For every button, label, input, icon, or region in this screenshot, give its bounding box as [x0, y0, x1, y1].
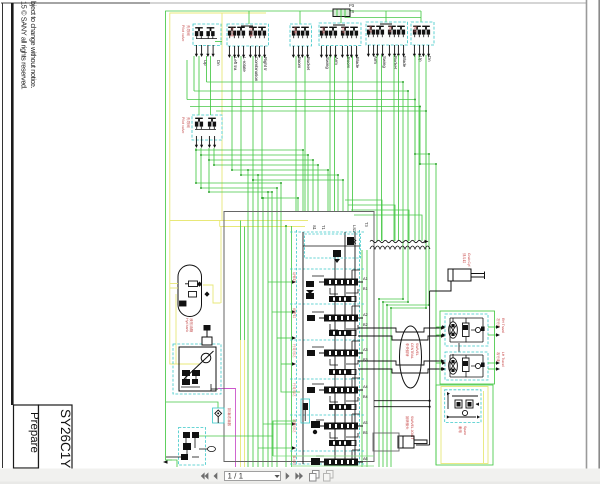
svg-text:15 © SANY all rights reserved.: 15 © SANY all rights reserved. [20, 1, 29, 90]
wire: drop row2 v3 [208, 148, 210, 192]
wire: lower-left C2 [201, 188, 277, 467]
svg-text:抓斗缸: 抓斗缸 [462, 253, 466, 264]
svg-text:行走马达: 行走马达 [292, 383, 296, 397]
sheet frame left thin line [2, 3, 4, 468]
pump circle [201, 353, 211, 363]
sheet frame top border [1, 2, 150, 4]
svg-text:右行走: 右行走 [249, 27, 253, 38]
wire: drop box6 v1 [414, 55, 416, 241]
wire: left bundle v 291.5 [291, 226, 293, 467]
pilot pump P3/T3 [333, 3, 355, 17]
red section labels in valve [292, 272, 296, 466]
svg-text:Hyd tank: Hyd tank [185, 318, 189, 332]
svg-text:斜铲: 斜铲 [368, 26, 372, 33]
wire: green bottom-left stub [166, 460, 178, 467]
wire: drop box3 v2 [304, 56, 306, 211]
swing cyan box [445, 390, 481, 423]
pilot box 3 [290, 24, 312, 46]
svg-text:SWIVEL: SWIVEL [415, 343, 419, 356]
wire: bundle pair greens upper [240, 221, 242, 341]
tank filler box [189, 292, 197, 298]
wire: drop box4 v4 [352, 56, 354, 211]
svg-text:bject to change without notice: bject to change without notice. [29, 1, 38, 89]
valve top pilot box [305, 234, 361, 258]
wire: valve left stub 424 [263, 423, 292, 425]
svg-text:Swing: Swing [382, 56, 387, 68]
pilot box 2 [227, 24, 269, 46]
wire: drop box5 v1 [376, 55, 378, 241]
svg-text:Grab Cyl: Grab Cyl [467, 253, 471, 267]
svg-text:推土: 推土 [388, 26, 392, 33]
motor top cap [204, 325, 211, 331]
svg-text:回转接头: 回转接头 [405, 416, 409, 430]
wire: mid bus B6 [241, 175, 338, 211]
svg-text:中央回转: 中央回转 [405, 343, 409, 357]
port arrows under pilot valves [195, 45, 203, 57]
wire: upper bus A4 [190, 107, 436, 466]
tank check diamond 1 [197, 282, 202, 287]
main spool row 6 [319, 459, 363, 466]
wire: upper bus A5 [216, 111, 426, 467]
svg-text:右行走: 右行走 [496, 352, 500, 363]
valve block outline [224, 212, 374, 462]
wire: magenta pump line [218, 389, 236, 468]
svg-text:T3: T3 [349, 9, 355, 14]
rotated black function labels under pilot valves [203, 56, 432, 82]
drain gallery wavy line [370, 240, 424, 242]
svg-text:S1: S1 [312, 225, 317, 231]
last-page button [295, 472, 303, 479]
check valve scallop row [370, 246, 430, 249]
svg-text:Dn: Dn [216, 60, 221, 66]
wire: upper bus A2 [194, 91, 408, 467]
pilot box 6 [411, 22, 434, 45]
relief valve in top box [333, 237, 356, 263]
svg-text:先导阀: 先导阀 [186, 117, 191, 128]
svg-text:Boom: Boom [346, 57, 351, 69]
swing yellow box [441, 387, 488, 464]
wire: mid bus B3 [209, 160, 313, 211]
red label in swivel [405, 343, 419, 359]
wire: mid bus B8 [262, 198, 298, 211]
wire: lower-left C1 [196, 183, 300, 392]
svg-text:LH Travel: LH Travel [501, 352, 505, 367]
wire: mid bus B1 [196, 150, 303, 211]
travel motor LH cyan box [445, 352, 488, 380]
red swing label [458, 426, 467, 435]
wire: drop box4 v3 [347, 56, 349, 211]
svg-text:LS1: LS1 [352, 225, 357, 233]
wire: yellow bottom pair [240, 340, 242, 467]
svg-text:B1: B1 [363, 287, 368, 291]
red travel labels [496, 318, 505, 367]
svg-text:Swing: Swing [325, 57, 330, 69]
wire: left bundle v 263 [262, 198, 264, 467]
compensator row 4 [329, 404, 356, 410]
svg-text:Bucket: Bucket [306, 57, 311, 71]
pilot box row 2 (left) [192, 115, 222, 140]
svg-text:L-rotate: L-rotate [242, 57, 247, 72]
wire: mid bus B2 [201, 155, 308, 211]
svg-text:Blade: Blade [355, 57, 360, 69]
svg-text:Dn: Dn [427, 56, 432, 62]
svg-text:P3: P3 [349, 3, 355, 8]
gear pump cluster [182, 370, 200, 385]
tank level gauge [180, 301, 187, 306]
dozer block [373, 433, 399, 451]
compensator row 1 [329, 296, 356, 302]
page-layout icon 2 [324, 471, 334, 482]
wire: upper bus A3 [187, 100, 429, 468]
wire: travel motor stubs [436, 326, 442, 328]
pump housing [179, 347, 216, 391]
wire: yellow inner drop [220, 227, 222, 303]
wire: travel right green stubs [488, 327, 496, 369]
wire: valve left stub 282 [268, 281, 292, 283]
svg-text:A2: A2 [363, 313, 368, 317]
wire: drop box2 v3 [252, 56, 254, 180]
red label below swivel [405, 416, 414, 439]
main spool row 4 [319, 387, 363, 394]
main spool row 2 [319, 315, 363, 322]
svg-text:斜铲缸: 斜铲缸 [292, 308, 296, 319]
wire: yellow tank dashes [170, 284, 178, 365]
pump drive shaft diagonal [184, 351, 214, 379]
svg-text:T1: T1 [321, 225, 326, 230]
svg-text:A6: A6 [363, 457, 368, 461]
wire: yellow inner border [170, 13, 266, 364]
wire: drop row2 v1 [195, 148, 197, 183]
motor box [202, 337, 212, 345]
work port labels right side [363, 277, 368, 461]
svg-text:Spare: Spare [463, 426, 467, 435]
main spool row 5 [319, 423, 363, 430]
svg-text:1 / 1: 1 / 1 [228, 472, 244, 481]
wire: drop box3 v1 [295, 56, 297, 211]
wire: mid bus B4 [214, 165, 318, 211]
wire: drop box5 v3 [393, 55, 395, 241]
svg-text:A3: A3 [363, 348, 368, 352]
pilot caps left of big spools [306, 281, 320, 465]
red label above cylinder [462, 253, 471, 267]
right window edge line [598, 0, 600, 469]
svg-text:Pilot valve: Pilot valve [181, 25, 185, 41]
wire: mid bus B5 [232, 170, 328, 211]
main spool row 3 [319, 350, 363, 357]
svg-text:RH Travel: RH Travel [501, 318, 505, 333]
wire: yellow tank L [203, 285, 221, 303]
svg-text:A4: A4 [363, 385, 368, 389]
svg-text:Blade: Blade [402, 56, 407, 68]
compensator row 5 [329, 440, 356, 446]
black drop rail to blade cylinder [374, 291, 430, 445]
svg-text:Left tra: Left tra [233, 57, 238, 71]
wire: lower-left C3 [209, 192, 272, 467]
tank check diamond 2 [204, 292, 209, 297]
svg-text:行走马达: 行走马达 [292, 344, 296, 358]
svg-text:B2: B2 [363, 323, 368, 327]
wire: drop box5 v2 [381, 55, 383, 241]
valve block cyan rails [290, 230, 365, 464]
wire: drop box2 v4 [261, 56, 263, 198]
svg-text:回转: 回转 [321, 27, 325, 34]
pilot box 5 [366, 22, 408, 45]
svg-text:CENTRAL: CENTRAL [410, 343, 414, 359]
wire: green partition bottom of valve [273, 421, 296, 456]
svg-text:动臂: 动臂 [293, 27, 297, 34]
wire: valve left stub 338 [277, 337, 292, 339]
pilot box 4 [319, 23, 361, 46]
next-page button [286, 472, 290, 479]
wire: valve left stub 364 [281, 363, 292, 365]
wire: left bundle v 248 [247, 170, 249, 467]
svg-text:推土缸: 推土缸 [292, 455, 296, 466]
pump cyan box [173, 344, 221, 394]
svg-text:左行走: 左行走 [230, 27, 234, 38]
title block: SY26C1Y4I box [39, 405, 73, 484]
wire: drop from box1 to row2 box [198, 56, 200, 115]
prev-page button [214, 472, 218, 479]
wire: valve left stub 448 [258, 447, 292, 449]
svg-text:A5: A5 [363, 421, 368, 425]
right scrollbar track line [586, 0, 588, 469]
tank breather valve [185, 281, 201, 287]
svg-text:先导阀: 先导阀 [186, 25, 191, 36]
wire: staircase to drain gallery [345, 200, 382, 241]
svg-text:Combination: Combination [254, 57, 259, 82]
wire: left bundle v 253 [252, 180, 254, 467]
wire: left bundle v 258 [257, 175, 259, 467]
svg-text:Right tr: Right tr [263, 57, 268, 71]
wire: drop box6 v2 [425, 55, 427, 241]
wire: drop box4 v2 [334, 56, 336, 211]
valve top labels [312, 222, 369, 233]
wire: drop box4 v1 [329, 56, 331, 211]
svg-text:回油滤油器: 回油滤油器 [227, 408, 232, 426]
svg-text:动臂缸: 动臂缸 [292, 272, 296, 283]
svg-text:Boom: Boom [297, 57, 302, 69]
spool leader connectors [312, 270, 360, 459]
svg-text:Up: Up [203, 60, 208, 66]
wire: green outer border left [166, 11, 422, 460]
svg-text:B5: B5 [363, 431, 368, 435]
wire: drop row2 v2 [200, 148, 202, 188]
wire: drop box5 v4 [398, 55, 400, 241]
swing green box [436, 385, 493, 465]
svg-text:T3: T3 [364, 222, 369, 227]
wire: mid bus B7 [253, 180, 343, 211]
valve block black rails [303, 232, 355, 464]
first-page button [201, 472, 209, 479]
compensator row 2 [329, 330, 356, 336]
wire: green drops from bus to pilot boxes [248, 11, 250, 24]
red labels inside pilot boxes [230, 26, 417, 38]
wire: valve right rails [361, 250, 363, 467]
wire: upper bus A1 [207, 82, 404, 467]
svg-text:Pilot valve: Pilot valve [181, 117, 185, 133]
main spool row 1 [319, 279, 363, 286]
wire: drop box2 v1 [231, 56, 233, 170]
svg-text:铅杆: 铅杆 [341, 27, 345, 34]
travel green box [440, 311, 495, 384]
svg-text:备用: 备用 [458, 426, 462, 433]
wire: green tank feed [166, 402, 218, 408]
arrow at tank return [163, 460, 168, 464]
wire: drop box2 v2 [240, 56, 242, 175]
arrowheads at valve-left stubs [292, 280, 446, 449]
pilot box 1 (left pair) [193, 24, 221, 46]
svg-text:B4: B4 [363, 395, 368, 399]
wire: yellow valve-top frame [222, 220, 308, 222]
svg-text:A1: A1 [363, 277, 368, 281]
travel motor RH cyan box [445, 314, 488, 346]
swing pilot sub-box [301, 399, 310, 423]
page-layout icon 1 [310, 471, 320, 482]
svg-text:推土: 推土 [413, 26, 417, 33]
wire: yellow vertical x222 [170, 13, 222, 221]
wire: valve left stub 312 [272, 311, 292, 313]
title block: Prepare box [14, 405, 39, 468]
bottom toolbar [0, 469, 600, 484]
sheet frame left thick line [11, 3, 14, 405]
wire junction dots [195, 81, 437, 309]
wire: left bundle v 268 [267, 192, 269, 467]
wire: drop row2 v4 [213, 148, 215, 165]
wire: left bundle v 286 [285, 226, 287, 467]
page number combobox [225, 472, 281, 481]
compensator row 3 [329, 369, 356, 375]
